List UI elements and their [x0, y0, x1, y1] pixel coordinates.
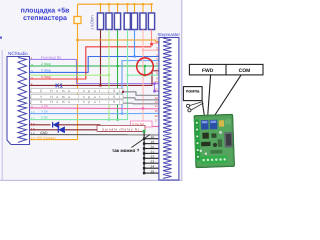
connector X1 pin chevrons [18, 58, 27, 143]
svg-text:NCStudio: NCStudio [8, 51, 28, 56]
wire R2 pulldown palegreen [108, 30, 110, 120]
wire Y-Step blue [30, 57, 159, 73]
wire violet drop to pin11 [154, 84, 159, 92]
svg-text:X Dir: X Dir [41, 104, 49, 108]
resistor R1 1kOhm [97, 13, 103, 30]
svg-text:25: 25 [151, 170, 155, 174]
node GND tie green [143, 130, 146, 133]
node R6 branch [142, 49, 144, 51]
svg-text:степмастера: степмастера [23, 15, 67, 22]
wire GND bus vertical [143, 131, 145, 173]
node bus-R2 [108, 3, 110, 5]
svg-text:FWD: FWD [202, 68, 214, 74]
+5V pad P1 [74, 17, 81, 24]
node violet junction [153, 82, 155, 84]
node GND bus 25 [143, 172, 145, 174]
wire R7 pulldown pinkred to pin2 [152, 30, 159, 44]
label box Y Home Input (S) [31, 95, 123, 99]
node R3-ZDir junction [116, 119, 118, 121]
node GND bus 23 [143, 162, 145, 164]
node GND bus 18 [143, 138, 145, 140]
node GND bus 19 [143, 142, 145, 144]
svg-text:20: 20 [151, 145, 155, 149]
node X-Dir junction [142, 107, 144, 109]
wire pin12 to diode VD1 [30, 124, 51, 126]
svg-text:Foot Input N0: Foot Input N0 [41, 56, 61, 60]
wire pink to pin17 [152, 126, 159, 128]
grid area [0, 0, 182, 180]
wire +5V branch to pin1 [78, 40, 159, 41]
wire GND to pin24 [144, 167, 159, 169]
wire помпа to board [202, 101, 205, 118]
wire R3 pulldown green [117, 30, 119, 120]
wire Z-Dir palegreen [30, 75, 159, 119]
wire GND to pin23 [144, 162, 159, 164]
svg-text:16: 16 [154, 114, 158, 118]
wire GND to pin25 [144, 172, 159, 174]
wire +5V vertical feed [77, 24, 79, 140]
svg-text:+5V (Output): +5V (Output) [36, 136, 56, 140]
diode VD2 [59, 127, 65, 133]
wire COM to board [212, 75, 241, 119]
page left margin line [1, 50, 3, 180]
connector X1 NCStudio body [7, 57, 30, 145]
svg-text:19: 19 [151, 140, 155, 144]
node GND bus 20 [143, 147, 145, 149]
node row6 end [122, 91, 124, 93]
wire R1 pulldown maroon [100, 30, 102, 86]
svg-text:22: 22 [151, 155, 155, 159]
wire stub R5 top [134, 4, 136, 13]
wire diode VD1 out [58, 125, 101, 131]
wire X-Step red [30, 47, 152, 79]
resistor R2 1kOhm [106, 13, 112, 30]
terminal circle 1 [187, 104, 190, 107]
wire Z-Step green [30, 65, 159, 67]
svg-text:24: 24 [151, 165, 155, 169]
node R4-ZDir junction [126, 74, 128, 76]
wire pin5 maroon [30, 71, 159, 86]
wire Y-Dir branch to pin15 [122, 112, 159, 114]
wire Z-Home gray [30, 92, 159, 96]
node R1 junction [99, 84, 101, 86]
node bus-R6 [142, 3, 144, 5]
svg-text:Y Step: Y Step [41, 69, 51, 73]
node +5V tee [76, 39, 79, 42]
resistor R6 1kOhm [140, 13, 146, 30]
svg-text:COM: COM [239, 68, 251, 74]
connector X2 pin chevrons [163, 38, 172, 178]
svg-text:Z Dir: Z Dir [41, 116, 49, 120]
svg-text:17: 17 [154, 119, 158, 123]
wire pin13 to diode VD2 [30, 129, 59, 131]
label box X Dir right [131, 121, 153, 127]
svg-text:Y Dir: Y Dir [41, 110, 49, 114]
annotation red circle [137, 58, 154, 75]
wire +5V output pin15 [30, 139, 78, 141]
node bus-R3 [116, 3, 118, 5]
wire GND to pin22 [144, 157, 159, 159]
svg-text:11: 11 [155, 87, 158, 91]
svg-text:15: 15 [154, 109, 158, 113]
wire Y-Home gray [30, 98, 159, 100]
wire GND to pin20 [144, 148, 159, 150]
svg-text:14: 14 [154, 104, 158, 108]
node R7-XStep junction [150, 43, 153, 46]
node GND bus 21 [143, 152, 145, 154]
terminal circle 2 [188, 109, 191, 112]
label box X Home Input (S) [31, 100, 123, 104]
wire stub R4 top [126, 4, 128, 13]
wire Y-Dir lightblue rise [30, 61, 159, 114]
node bus-R4 [126, 3, 128, 5]
node GND bus 22 [143, 157, 145, 159]
node R3 junction [116, 65, 118, 67]
wire diode VD2 to GND tie [65, 130, 144, 131]
node R2 junction [108, 118, 110, 120]
svg-text:18: 18 [151, 135, 155, 139]
node branch-palegreen junction [144, 74, 146, 76]
box FWD/COM [189, 64, 263, 75]
wire R6 pulldown palepink [142, 30, 144, 122]
wire GND to pin21 [144, 152, 159, 154]
wire X-Dir pink to pin14 [30, 107, 159, 110]
svg-text:GND: GND [40, 131, 48, 135]
board components [219, 120, 224, 127]
diode VD1 [53, 122, 59, 128]
wire Z-Step branch [144, 66, 146, 75]
svg-text:помпа: помпа [186, 89, 200, 94]
node bus-R7 [150, 3, 152, 5]
wire palepink into label box [142, 121, 144, 124]
node GND bus 24 [143, 167, 145, 169]
node R5-YStep junction [133, 55, 135, 57]
resistor R5 1kOhm [131, 13, 137, 30]
svg-text:Spindle (Relay N): Spindle (Relay N) [102, 127, 139, 131]
svg-text:21: 21 [151, 150, 155, 154]
svg-text:Stepmaster: Stepmaster [158, 32, 181, 37]
relay 1 [201, 120, 209, 130]
page border [0, 0, 182, 180]
wire X-Home gray [30, 102, 159, 105]
svg-text:Z Step: Z Step [41, 62, 51, 66]
bottom terminal row [201, 156, 227, 164]
wire palegreen spur [30, 74, 110, 76]
wire R4 pulldown palegreen [127, 30, 129, 76]
node bus-R5 [133, 3, 135, 5]
resistor R7 1kOhm [148, 13, 154, 30]
wire stub R2 top [108, 4, 110, 13]
wire FWD to board [208, 75, 211, 118]
right connector [224, 132, 233, 148]
resistor R3 1kOhm [114, 13, 120, 30]
wire stub R6 top [142, 4, 144, 13]
wire pump contact 2 [191, 103, 203, 110]
relay 2 [210, 120, 218, 130]
wire stub R7 top [151, 4, 153, 13]
wire GND to pin18 [144, 138, 159, 140]
node Y-Dir tee [121, 112, 123, 114]
resistor R4 1kOhm [124, 13, 130, 30]
box помпа [183, 87, 202, 101]
svg-text:так можно ?: так можно ? [112, 148, 140, 153]
label box Z Home Input (S) [31, 89, 123, 93]
wire pump contact 1 [190, 102, 202, 106]
annotation arrow line [132, 135, 151, 148]
svg-text:10: 10 [154, 80, 158, 84]
node bus-R1 [99, 3, 101, 5]
PCB board photo [194, 114, 235, 168]
left terminal strip [194, 119, 201, 161]
wire stub R1 top [100, 4, 102, 13]
svg-text:23: 23 [151, 160, 155, 164]
wire R5 pulldown blue [134, 30, 136, 57]
svg-text:X Step: X Step [41, 75, 51, 79]
wire GND to pin19 [144, 143, 159, 145]
page edge tick [0, 37, 2, 39]
svg-text:площадка +5в: площадка +5в [21, 8, 71, 15]
svg-text:1 kOhm: 1 kOhm [90, 15, 95, 30]
wire net Foot-Input violet [30, 59, 159, 83]
wire GND pin14 [30, 134, 159, 136]
wire palepink branch to pin3 [143, 49, 159, 51]
node violet end [153, 90, 155, 92]
wire stub R3 top [117, 4, 119, 13]
connector X2 Stepmaster body [159, 38, 179, 181]
label box Spindle (Relay N) [97, 125, 145, 131]
wire +5V top bus [78, 4, 152, 16]
node palegreen spur junction [108, 74, 110, 76]
node Z-Step tee [144, 65, 146, 67]
